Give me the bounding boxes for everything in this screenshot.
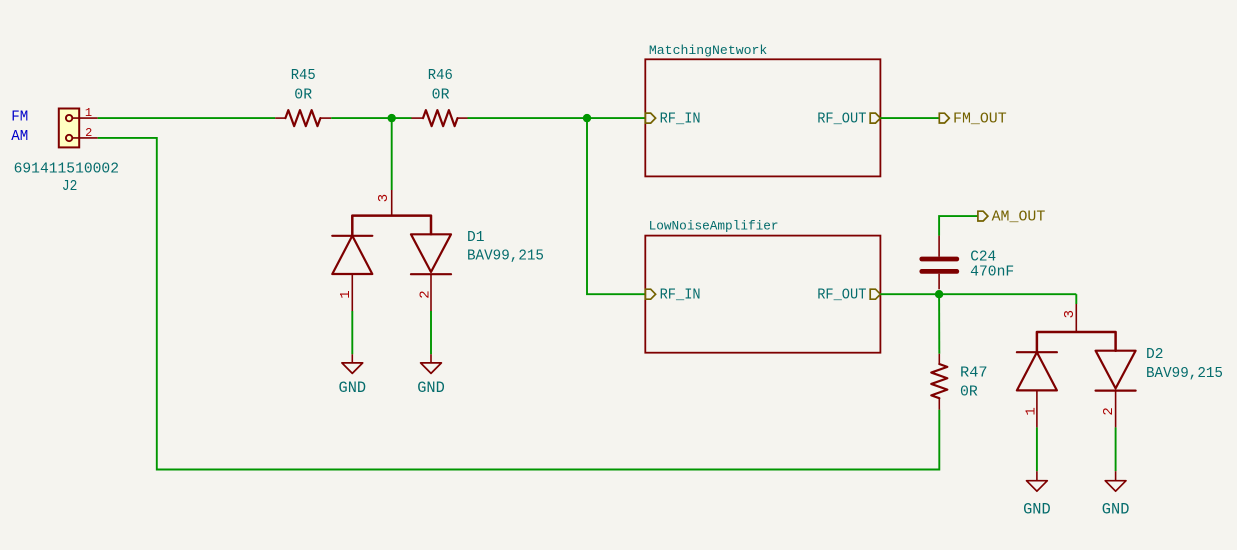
MatchingNetwork sheet pin RF_OUT	[817, 112, 880, 128]
svg-text:GND: GND	[1023, 501, 1051, 519]
wire D1 pin1 to GND	[351, 311, 353, 354]
diode D2 pin 3	[1062, 304, 1078, 332]
ground symbol below D2 pin2	[1105, 471, 1126, 491]
svg-text:2: 2	[1101, 407, 1117, 415]
wire LNA RF_OUT to D2	[880, 293, 1076, 295]
svg-text:D1: D1	[467, 230, 485, 246]
svg-text:GND: GND	[417, 379, 445, 397]
wire junction down to D1 pin 3	[391, 118, 393, 190]
svg-text:1: 1	[338, 290, 354, 298]
ground symbol below D2 pin1	[1027, 471, 1048, 491]
MatchingNetwork sheet pin RF_IN	[645, 112, 700, 128]
diode D2 pin 2	[1101, 391, 1117, 428]
wire R46 to MatchingNetwork RF_IN	[468, 117, 646, 119]
junction at MatchingNetwork branch	[583, 114, 591, 122]
svg-text:FM_OUT: FM_OUT	[953, 110, 1007, 128]
svg-text:BAV99,215: BAV99,215	[467, 249, 544, 265]
diode D1 pin 2	[418, 274, 434, 311]
svg-text:0R: 0R	[960, 384, 978, 400]
wire junction down to LowNoiseAmplifier RF_IN	[587, 118, 645, 294]
diode D1 pin 3	[376, 190, 392, 216]
resistor R47	[931, 354, 947, 410]
svg-text:3: 3	[1062, 310, 1078, 318]
diode D1 pin 1	[338, 274, 354, 311]
svg-text:0R: 0R	[294, 88, 312, 104]
svg-text:470nF: 470nF	[970, 265, 1014, 281]
svg-text:AM: AM	[11, 129, 28, 145]
wire J2 pin1 to R45	[98, 117, 276, 119]
svg-text:D2: D2	[1146, 347, 1164, 363]
diode D1 common bar	[352, 216, 431, 236]
svg-text:RF_IN: RF_IN	[660, 112, 701, 128]
svg-text:BAV99,215: BAV99,215	[1146, 366, 1223, 382]
svg-text:AM_OUT: AM_OUT	[992, 208, 1046, 226]
svg-text:R45: R45	[291, 68, 316, 84]
svg-text:LowNoiseAmplifier: LowNoiseAmplifier	[649, 218, 779, 233]
hierarchical label FM_OUT	[939, 110, 1006, 128]
svg-text:C24: C24	[970, 249, 996, 265]
svg-text:GND: GND	[1102, 501, 1130, 519]
wire D2 pin2 to GND	[1115, 427, 1117, 471]
diode D1 left diode (cathode up)	[332, 236, 372, 274]
svg-text:GND: GND	[339, 379, 367, 397]
junction at R45/R46 node	[388, 114, 396, 122]
svg-text:2: 2	[85, 126, 92, 140]
svg-text:RF_OUT: RF_OUT	[817, 288, 866, 304]
hierarchical label AM_OUT	[978, 208, 1045, 226]
J2 pin 2	[72, 126, 97, 140]
capacitor C24	[922, 236, 957, 290]
resistor R45	[275, 110, 331, 126]
ground symbol below D1 pin1	[342, 354, 363, 373]
sheet LowNoiseAmplifier	[645, 236, 880, 353]
diode D2 pin 1	[1024, 390, 1040, 427]
wire D2 pin1 to GND	[1036, 427, 1038, 471]
svg-text:2: 2	[418, 290, 434, 298]
svg-text:MatchingNetwork: MatchingNetwork	[649, 43, 767, 58]
wire C24 to AM_OUT	[939, 216, 978, 236]
svg-text:FM: FM	[11, 110, 28, 126]
connector J2 body	[59, 109, 79, 148]
diode D1 right diode (cathode down)	[411, 234, 451, 274]
svg-text:R47: R47	[960, 366, 988, 382]
wire bottom loop from R47 to J2 pin 2	[98, 138, 940, 470]
junction at C24/R47 node	[935, 290, 943, 298]
wire D2 pin3 drop	[1075, 294, 1077, 304]
resistor R46	[411, 110, 467, 126]
svg-text:J2: J2	[62, 179, 78, 195]
wire MatchingNetwork RF_OUT to FM_OUT	[880, 117, 939, 119]
svg-text:3: 3	[376, 194, 392, 202]
svg-text:1: 1	[85, 106, 92, 120]
diode D2 common bar	[1037, 332, 1116, 352]
svg-text:0R: 0R	[432, 88, 450, 104]
svg-text:RF_OUT: RF_OUT	[817, 112, 866, 128]
diode D2 left diode (cathode up)	[1017, 352, 1057, 390]
wire junction down to R47	[938, 294, 940, 354]
sheet MatchingNetwork	[645, 59, 880, 176]
LowNoiseAmplifier sheet pin RF_OUT	[817, 288, 880, 304]
wire R45 to R46	[331, 117, 411, 119]
svg-text:691411510002: 691411510002	[14, 161, 119, 177]
wire D1 pin2 to GND	[430, 311, 432, 354]
ground symbol below D1 pin2	[421, 354, 442, 373]
svg-text:RF_IN: RF_IN	[660, 288, 701, 304]
J2 pin 1	[72, 106, 97, 120]
LowNoiseAmplifier sheet pin RF_IN	[645, 288, 700, 304]
diode D2 right diode (cathode down)	[1096, 351, 1136, 391]
svg-text:1: 1	[1024, 407, 1040, 415]
svg-text:R46: R46	[428, 68, 453, 84]
